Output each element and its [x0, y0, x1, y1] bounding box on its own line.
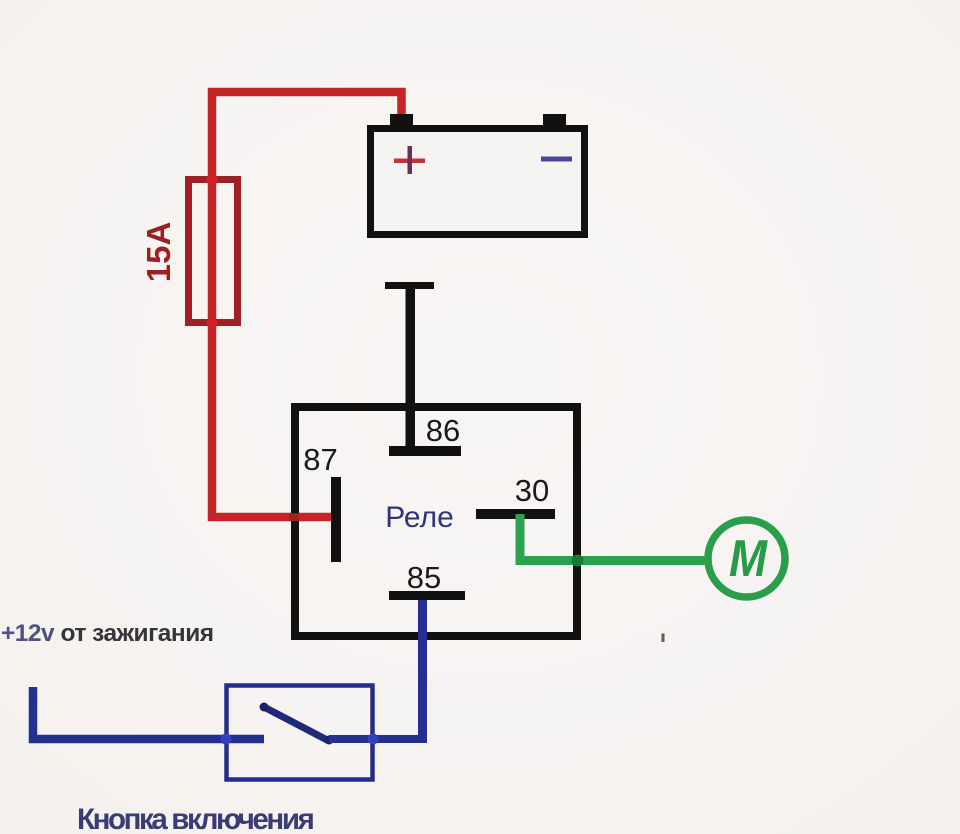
wire: blue switch right contact: [329, 735, 425, 743]
battery plus sign: [394, 146, 425, 174]
artifact tick mark: [662, 634, 665, 643]
battery positive terminal nub: [390, 114, 413, 127]
label: +12v от зажигания: [1, 620, 214, 647]
svg-text:15A: 15A: [140, 222, 177, 283]
label: Кнопка включения: [77, 803, 314, 834]
svg-text:+12v от зажигания: +12v от зажигания: [1, 620, 214, 647]
switch S1 box: [227, 686, 373, 780]
svg-text:M: M: [729, 530, 768, 588]
wire: green from pin 30 to motor: [520, 514, 706, 561]
pin 87 contact bar: [331, 477, 341, 562]
battery minus sign: [541, 157, 572, 162]
motor M1 circle: [708, 520, 785, 597]
svg-text:Реле: Реле: [385, 501, 454, 534]
pin 86 contact bar: [389, 446, 461, 456]
switch lever: [260, 703, 334, 745]
svg-text:Кнопка включения: Кнопка включения: [77, 803, 314, 834]
label: fuse value 15A: [140, 222, 177, 283]
pin 85 contact bar: [389, 591, 465, 600]
wire: blue from ignition to switch: [33, 687, 264, 739]
relay U1 box: [295, 407, 577, 636]
svg-text:30: 30: [515, 473, 549, 508]
junction: blue wire at switch left wall: [221, 734, 232, 745]
svg-text:86: 86: [426, 413, 460, 448]
wire: red from battery + through fuse to relay pin 87: [212, 92, 402, 517]
battery negative terminal nub: [543, 114, 566, 127]
junction: green wire crossing relay wall: [572, 555, 584, 567]
fuse F1 body: [189, 180, 238, 323]
junction: blue wire at switch right wall: [368, 734, 379, 745]
svg-text:85: 85: [407, 560, 441, 595]
svg-text:87: 87: [303, 442, 337, 477]
junction: red wire crossing relay wall: [289, 513, 299, 521]
wire: black from T-bar into relay pin 86: [406, 289, 416, 447]
junction: wire to fuse bottom: [207, 318, 218, 329]
pin 30 contact bar: [476, 509, 555, 519]
wire: blue from relay pin 85 down to switch: [418, 600, 427, 743]
junction: wire to fuse top: [207, 175, 218, 186]
terminal T-bar above relay pin 86: [385, 282, 434, 289]
battery B1 body: [371, 129, 585, 235]
